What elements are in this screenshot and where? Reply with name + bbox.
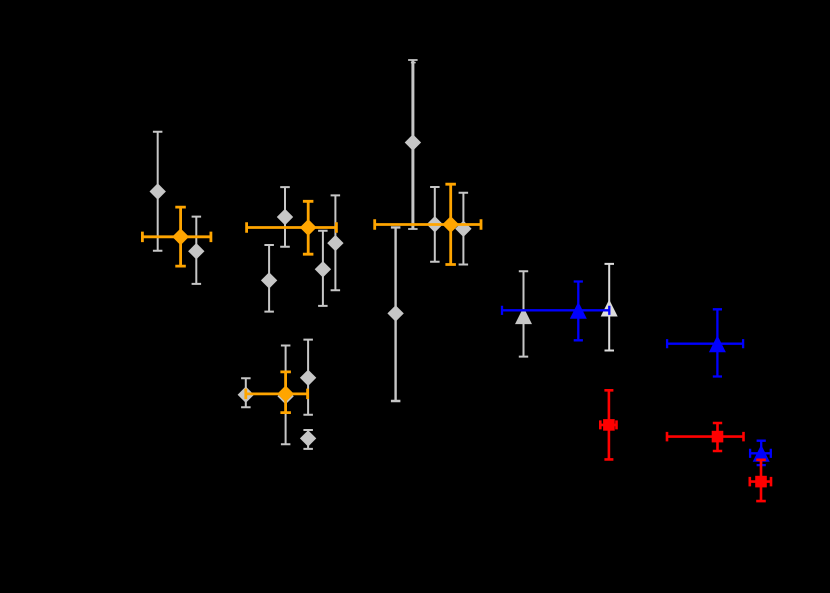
data point B2 (blue triangle) bbox=[667, 309, 743, 376]
data point G8 (gray diamond, long bar) bbox=[387, 227, 403, 401]
data point G6 (gray diamond) bbox=[327, 195, 343, 290]
data point T2 (light gray triangle) bbox=[601, 264, 618, 351]
data point B3 (blue triangle) bbox=[750, 441, 771, 465]
data point G7 (gray diamond, long bar) bbox=[405, 60, 421, 229]
data point G12 (gray diamond behind orange) bbox=[277, 346, 293, 445]
data point G14 (gray diamond) bbox=[300, 430, 316, 449]
data point B1 (blue triangle) bbox=[502, 282, 609, 341]
data point R3 (red square) bbox=[750, 460, 771, 501]
data point O3 (orange diamond) bbox=[375, 184, 481, 264]
data point O1 (orange diamond) bbox=[142, 207, 211, 266]
data point R2 (red square) bbox=[667, 423, 744, 451]
data point G5 (gray diamond) bbox=[315, 231, 331, 306]
data point O2 (orange diamond) bbox=[247, 201, 337, 254]
data point G1 (gray diamond) bbox=[150, 132, 166, 251]
data point T1 (gray triangle) bbox=[515, 271, 532, 356]
data point G4 (gray diamond) bbox=[261, 245, 277, 312]
data point O4 (orange diamond) bbox=[246, 372, 308, 413]
data point G3 (gray diamond) bbox=[277, 187, 293, 247]
data point G11 (gray diamond) bbox=[238, 378, 254, 407]
data point G2 (gray diamond) bbox=[188, 217, 204, 284]
data point G13 (gray diamond) bbox=[300, 340, 316, 415]
data point G10 (gray diamond) bbox=[455, 193, 471, 265]
data point R1 (red square) bbox=[600, 390, 616, 459]
data point G9 (gray diamond) bbox=[427, 187, 443, 262]
